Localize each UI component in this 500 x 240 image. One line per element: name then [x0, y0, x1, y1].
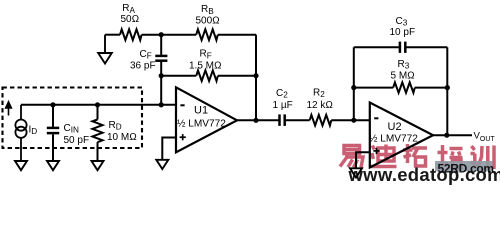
svg-text:½ LMV772: ½ LMV772	[369, 134, 418, 145]
svg-text:CIN: CIN	[64, 123, 80, 135]
watermark red char 1 (yi)	[340, 146, 363, 168]
wire U2 output	[433, 134, 472, 136]
dashed source box	[3, 88, 143, 149]
capacitor CIN	[47, 105, 59, 161]
junction dot CIN top	[50, 102, 55, 107]
wire right rail stage1 (RB end down to U1 output)	[255, 35, 257, 121]
svg-text:36 pF: 36 pF	[130, 60, 156, 71]
svg-text:10 MΩ: 10 MΩ	[107, 132, 137, 143]
svg-text:1 µF: 1 µF	[273, 100, 293, 111]
watermark red char 2 (di)	[370, 145, 397, 167]
resistor RB	[161, 29, 256, 40]
svg-text:C2: C2	[276, 88, 288, 100]
svg-text:C3: C3	[396, 16, 408, 28]
junction dot U2 output	[444, 133, 449, 138]
wire CF rail down to input node	[160, 76, 162, 105]
svg-text:5 MΩ: 5 MΩ	[391, 70, 415, 81]
resistor R2	[286, 115, 370, 126]
svg-text:50Ω: 50Ω	[121, 14, 140, 25]
op-amp U2	[370, 103, 433, 168]
ground G3 (under CIN)	[47, 161, 59, 170]
wire U2 non-inverting to ground	[356, 152, 370, 168]
ground G4 (under RD)	[92, 161, 104, 170]
junction dot R3 left	[351, 85, 356, 90]
wire U1 output	[237, 119, 279, 121]
ground G6 (U2 +)	[350, 168, 362, 177]
current source ID (photodiode model)	[15, 105, 26, 161]
wire main input line	[21, 104, 176, 106]
svg-text:1.5 MΩ: 1.5 MΩ	[189, 60, 222, 71]
wire U1 non-inverting to ground	[162, 138, 176, 160]
ground G1 (left of RA)	[98, 35, 112, 64]
junction dot RF right	[253, 73, 258, 78]
U2 plus sign	[373, 148, 379, 154]
op-amp U1	[176, 87, 237, 152]
svg-text:RD: RD	[109, 120, 122, 132]
svg-text:R3: R3	[398, 59, 410, 71]
ground G2 (under ID)	[15, 161, 27, 170]
resistor R3	[354, 82, 448, 92]
svg-text:RB: RB	[201, 4, 214, 16]
watermark grey box 52RD.com	[435, 161, 493, 171]
svg-text:RF: RF	[200, 49, 212, 61]
wire right rail stage2	[446, 47, 448, 135]
U1 minus sign	[180, 104, 184, 106]
arrow (current direction)	[6, 102, 12, 116]
svg-text:50 pF: 50 pF	[64, 135, 90, 146]
svg-text:12 kΩ: 12 kΩ	[307, 100, 334, 111]
wire left rail stage2	[353, 47, 355, 120]
watermark red char 5 (xun)	[471, 146, 495, 170]
svg-text:52RD.com: 52RD.com	[438, 161, 494, 175]
watermark red char 4 (pei)	[438, 145, 463, 168]
resistor RD	[92, 105, 102, 161]
svg-text:500Ω: 500Ω	[196, 15, 220, 26]
node A junction dot (RA/RB/CF)	[159, 32, 164, 37]
node B junction dot (inverting input)	[159, 102, 164, 107]
capacitor C2	[280, 114, 285, 126]
svg-text:ID: ID	[29, 125, 38, 137]
svg-text:10 pF: 10 pF	[390, 27, 416, 38]
junction dot U1 output	[253, 118, 258, 123]
junction dot RD top	[95, 102, 100, 107]
junction dot RF left	[159, 73, 164, 78]
resistor RA	[105, 29, 161, 40]
svg-text:CF: CF	[140, 49, 152, 61]
ground G5 (U1 +)	[156, 160, 168, 169]
junction dot R3 right	[445, 85, 450, 90]
resistor RF	[161, 70, 256, 81]
capacitor C3	[354, 42, 448, 53]
capacitor CF	[155, 35, 167, 76]
U1 plus sign	[180, 134, 186, 140]
U2 minus sign	[374, 117, 378, 119]
svg-text:U2: U2	[388, 121, 402, 133]
svg-text:½ LMV772: ½ LMV772	[177, 119, 226, 130]
node C junction dot (U2 inverting input)	[351, 118, 356, 123]
svg-text:U1: U1	[194, 105, 208, 117]
watermark red char 3 (tuo)	[403, 144, 427, 166]
svg-text:R2: R2	[313, 87, 325, 99]
